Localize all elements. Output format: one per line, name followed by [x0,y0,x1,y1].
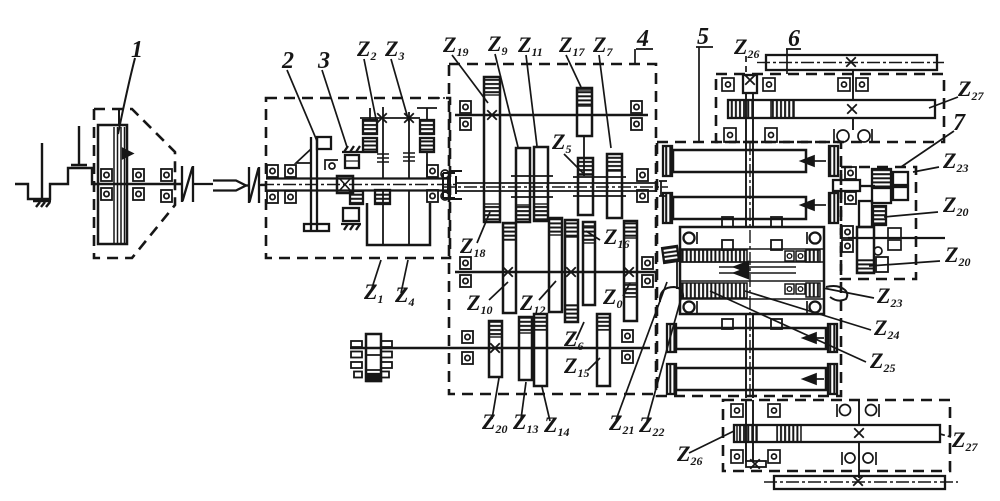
svg-text:6: 6 [788,26,800,52]
svg-text:4: 4 [636,26,649,52]
svg-text:3: 3 [317,48,330,74]
svg-text:1: 1 [131,37,143,63]
svg-text:5: 5 [697,24,709,50]
svg-text:2: 2 [281,48,294,74]
svg-text:7: 7 [953,110,966,136]
